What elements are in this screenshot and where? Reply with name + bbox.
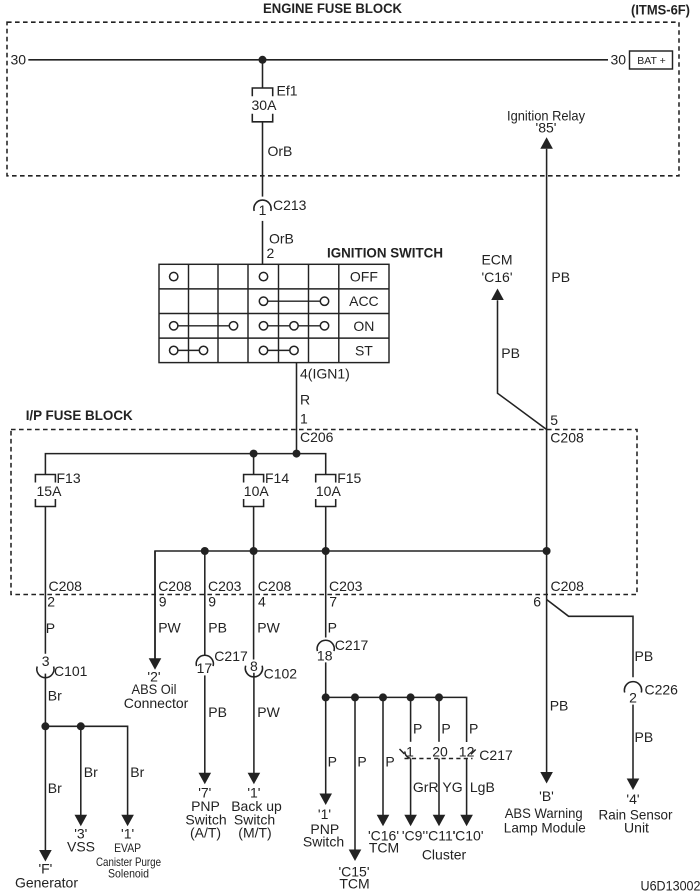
- arrow to rain sensor unit: [627, 779, 640, 791]
- svg-text:15A: 15A: [37, 483, 63, 499]
- arrow to EVAP solenoid: [121, 815, 134, 827]
- connector C217 pin 18: [317, 640, 334, 651]
- svg-text:C208: C208: [551, 578, 585, 594]
- svg-text:9: 9: [159, 594, 167, 610]
- contact bridge ON row right: [264, 325, 325, 327]
- svg-text:GrR: GrR: [413, 779, 439, 795]
- I/P fuse block boundary box: [11, 430, 637, 595]
- arrow to cluster C11: [433, 815, 446, 827]
- svg-text:18: 18: [317, 647, 333, 663]
- wire distribution bus below F14 F15: [155, 551, 547, 659]
- svg-text:17: 17: [197, 660, 213, 676]
- arrow up to ECM: [491, 289, 504, 301]
- svg-text:Unit: Unit: [624, 819, 649, 835]
- svg-text:ECM: ECM: [481, 252, 512, 268]
- wire 30 bus: [28, 59, 608, 61]
- svg-text:'85': '85': [536, 120, 557, 136]
- wire GrR from C217-1 to cluster C9: [410, 759, 412, 816]
- connector C217 pin 17: [196, 655, 213, 666]
- svg-text:1: 1: [259, 202, 267, 218]
- contact bridge ACC row: [264, 300, 325, 302]
- svg-text:VSS: VSS: [67, 838, 95, 854]
- svg-text:C217: C217: [214, 648, 248, 664]
- arrow to PNP switch: [319, 794, 332, 806]
- wire P from F13 through C208 pin 2: [44, 507, 46, 654]
- contacts ST row: [170, 346, 178, 354]
- svg-text:12: 12: [459, 744, 475, 760]
- arrow to back up switch: [248, 773, 261, 785]
- svg-text:'4': '4': [626, 791, 639, 807]
- svg-text:P: P: [46, 620, 55, 636]
- wire Br from C101 to Br bus: [44, 674, 46, 727]
- svg-text:'C10': 'C10': [452, 828, 483, 844]
- svg-text:P: P: [385, 754, 394, 770]
- svg-text:Br: Br: [130, 764, 144, 780]
- svg-text:OFF: OFF: [350, 269, 378, 285]
- svg-text:C101: C101: [54, 663, 88, 679]
- wire Br to VSS: [80, 726, 82, 815]
- svg-text:4(IGN1): 4(IGN1): [300, 366, 350, 382]
- svg-text:Cluster: Cluster: [422, 847, 467, 863]
- fuse Ef1 30A: [252, 88, 272, 96]
- svg-text:P: P: [328, 619, 337, 635]
- svg-text:P: P: [328, 754, 337, 770]
- svg-text:PB: PB: [208, 619, 227, 635]
- svg-text:P: P: [357, 754, 366, 770]
- svg-text:OrB: OrB: [269, 230, 294, 246]
- contacts ACC row: [259, 297, 267, 305]
- svg-text:TCM: TCM: [369, 840, 399, 856]
- arrow to cluster C10: [460, 815, 473, 827]
- svg-text:6: 6: [533, 594, 541, 610]
- wire PW from bus through C208 pin 9 to ABS oil connector: [154, 551, 156, 659]
- fuse F13 15A: [35, 475, 55, 483]
- arrow to C16 TCM: [377, 815, 390, 827]
- svg-text:1: 1: [300, 411, 308, 427]
- engine fuse block boundary box: [7, 22, 679, 176]
- wire YG from C217-20 to cluster C11: [438, 759, 440, 816]
- contact bridge ST row left: [174, 349, 204, 351]
- svg-text:C206: C206: [300, 429, 334, 445]
- wire PB branch to rain sensor unit: [547, 600, 633, 678]
- svg-text:3: 3: [42, 653, 50, 669]
- svg-text:Switch: Switch: [303, 834, 344, 850]
- svg-text:Solenoid: Solenoid: [108, 867, 149, 881]
- junction cluster bus at C9 wire: [407, 693, 415, 701]
- svg-text:Br: Br: [48, 780, 62, 796]
- contact bridge ON row left: [174, 325, 234, 327]
- ignition switch contact table U-SW: [159, 264, 389, 362]
- svg-text:PB: PB: [635, 729, 654, 745]
- svg-text:'C11': 'C11': [426, 828, 456, 844]
- contacts OFF row: [170, 272, 178, 280]
- svg-text:TCM: TCM: [339, 876, 369, 892]
- contact bridge ST row right: [264, 349, 295, 351]
- svg-text:P: P: [469, 721, 478, 737]
- svg-text:'C16': 'C16': [481, 269, 512, 285]
- junction cluster bus at C16 TCM wire: [379, 693, 387, 701]
- wire Br to generator: [44, 726, 46, 850]
- svg-text:'1': '1': [318, 806, 331, 822]
- svg-text:ST: ST: [355, 342, 373, 358]
- wire P to C15 TCM: [354, 697, 356, 850]
- svg-text:PW: PW: [158, 619, 181, 635]
- svg-text:I/P FUSE BLOCK: I/P FUSE BLOCK: [26, 407, 133, 423]
- svg-text:U6D13002: U6D13002: [641, 877, 700, 893]
- wire Br bus to VSS and EVAP: [45, 726, 127, 815]
- svg-text:P: P: [441, 721, 450, 737]
- wire PB from C217 to PNP switch A/T: [204, 675, 206, 773]
- svg-text:OrB: OrB: [268, 143, 293, 159]
- wire PB from bus through C203 pin 9: [204, 551, 206, 655]
- arrow to cluster C9: [404, 815, 417, 827]
- contacts ON row: [170, 322, 178, 330]
- svg-text:ACC: ACC: [349, 293, 379, 309]
- svg-text:PW: PW: [257, 619, 280, 635]
- svg-text:P: P: [413, 721, 422, 737]
- svg-text:30A: 30A: [252, 97, 278, 113]
- svg-text:30: 30: [11, 51, 27, 67]
- connector C217 cluster dashed boundary: [405, 758, 473, 760]
- svg-text:30: 30: [611, 51, 627, 67]
- svg-text:Connector: Connector: [124, 695, 189, 711]
- svg-text:R: R: [300, 391, 310, 407]
- svg-text:C208: C208: [550, 429, 584, 445]
- svg-text:ENGINE FUSE BLOCK: ENGINE FUSE BLOCK: [263, 0, 402, 16]
- svg-text:EVAP: EVAP: [114, 841, 141, 855]
- svg-text:YG: YG: [442, 779, 462, 795]
- svg-text:8: 8: [250, 658, 258, 674]
- wire OrB from C213 to ignition switch pin 2: [262, 221, 264, 264]
- svg-text:C208: C208: [258, 578, 292, 594]
- svg-text:Generator: Generator: [15, 874, 78, 890]
- svg-text:10A: 10A: [244, 483, 270, 499]
- svg-text:2: 2: [267, 245, 275, 261]
- wire PB ignition relay to ABS warning lamp module: [546, 149, 548, 773]
- wire bus feeding fuses F13 F14 F15: [45, 454, 325, 475]
- wire from 30 bus to fuse Ef1: [262, 60, 264, 88]
- arrow to ABS warning lamp module: [540, 772, 553, 784]
- svg-text:C203: C203: [208, 578, 242, 594]
- svg-text:PB: PB: [208, 704, 227, 720]
- svg-text:(ITMS-6F): (ITMS-6F): [631, 2, 690, 18]
- wire LgB from C217-12 to cluster C10: [466, 759, 468, 816]
- wire stem to F14: [253, 454, 255, 475]
- svg-text:9: 9: [208, 594, 216, 610]
- svg-text:'1': '1': [121, 826, 134, 842]
- junction cluster bus at C15 TCM wire: [351, 693, 359, 701]
- wire PW from C102 to back up switch: [253, 673, 255, 773]
- wire P to C16 TCM: [382, 697, 384, 815]
- svg-text:7: 7: [329, 594, 337, 610]
- arrow to C15 TCM: [349, 850, 362, 862]
- svg-text:PB: PB: [635, 648, 654, 664]
- svg-text:IGNITION SWITCH: IGNITION SWITCH: [327, 245, 443, 261]
- svg-text:C203: C203: [329, 578, 363, 594]
- svg-text:'B': 'B': [539, 788, 554, 804]
- svg-text:'C9': 'C9': [402, 828, 425, 844]
- junction on 30 bus: [259, 56, 267, 64]
- svg-text:C217: C217: [335, 637, 369, 653]
- svg-text:(M/T): (M/T): [238, 825, 271, 841]
- svg-text:PB: PB: [551, 269, 570, 285]
- svg-text:LgB: LgB: [470, 779, 495, 795]
- svg-text:C208: C208: [158, 578, 192, 594]
- cluster feed bus: [326, 697, 467, 742]
- junction bus at C203-9: [201, 547, 209, 555]
- svg-text:C217: C217: [479, 747, 513, 763]
- wire OrB from fuse Ef1 to connector C213: [262, 122, 264, 197]
- svg-text:PB: PB: [501, 345, 520, 361]
- svg-text:BAT +: BAT +: [637, 55, 666, 67]
- BAT + terminal box: [630, 51, 673, 69]
- connector C226 pin 2: [624, 682, 641, 693]
- wire from F14 to bus: [253, 507, 255, 660]
- connector C213 pin 1: [254, 200, 271, 211]
- wire PB branch to ECM: [498, 300, 547, 429]
- arrow to ABS oil connector: [149, 658, 162, 670]
- svg-text:Lamp Module: Lamp Module: [504, 819, 586, 835]
- junction cluster bus at PNP wire: [322, 693, 330, 701]
- svg-text:4: 4: [258, 594, 266, 610]
- svg-text:C226: C226: [645, 682, 679, 698]
- junction at C206 feed: [293, 450, 301, 458]
- wire P to cluster C9: [410, 697, 412, 741]
- svg-text:20: 20: [432, 744, 448, 760]
- svg-text:Br: Br: [84, 764, 98, 780]
- junction Br bus at VSS wire: [77, 722, 85, 730]
- svg-text:5: 5: [550, 412, 558, 428]
- svg-text:ON: ON: [353, 318, 374, 334]
- wire R from ignition switch 4(IGN1) to C206: [296, 363, 298, 454]
- junction bus at F15: [322, 547, 330, 555]
- wire from F15 to bus: [325, 507, 327, 638]
- wire PB from C226 to rain sensor unit: [632, 705, 634, 779]
- svg-text:Ef1: Ef1: [277, 82, 298, 98]
- svg-text:2: 2: [47, 594, 55, 610]
- junction Br bus at generator wire: [41, 722, 49, 730]
- svg-text:10A: 10A: [316, 483, 342, 499]
- fuse F14 10A: [244, 475, 264, 483]
- junction at F14 stem: [250, 450, 258, 458]
- arrow up to ignition relay: [540, 137, 553, 149]
- svg-text:2: 2: [629, 690, 637, 706]
- arrow to VSS: [75, 815, 88, 827]
- svg-text:PB: PB: [550, 698, 569, 714]
- arrow to generator: [39, 850, 52, 862]
- fuse F15 10A: [316, 475, 336, 483]
- svg-text:C208: C208: [49, 578, 83, 594]
- junction bus at F14: [250, 547, 258, 555]
- junction cluster bus at C11 wire: [435, 693, 443, 701]
- svg-text:PW: PW: [257, 704, 280, 720]
- junction bus at C208-6: [543, 547, 551, 555]
- wire P to cluster C11: [438, 697, 440, 741]
- arrow to PNP switch A/T: [199, 773, 212, 785]
- wire P from C217-18 to PNP switch and cluster bus: [325, 662, 327, 794]
- svg-text:F15: F15: [337, 470, 361, 486]
- svg-text:C102: C102: [264, 666, 298, 682]
- svg-text:Br: Br: [48, 688, 62, 704]
- svg-text:(A/T): (A/T): [190, 825, 221, 841]
- svg-text:C213: C213: [273, 197, 307, 213]
